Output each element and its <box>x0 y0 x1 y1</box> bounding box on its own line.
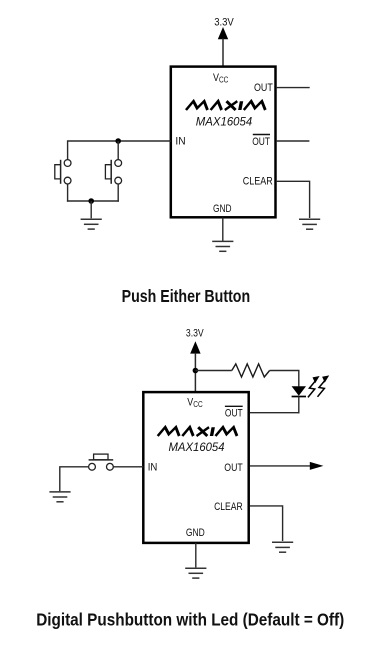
wire OUT stub (U1) <box>277 87 310 89</box>
ground (U1 GND) <box>212 241 233 251</box>
svg-text:MAX16054: MAX16054 <box>196 116 252 128</box>
svg-text:GND: GND <box>186 527 205 539</box>
node junction dot (supply to resistor) <box>193 368 199 374</box>
wire S1 bottom connection <box>67 184 69 202</box>
svg-text:IN: IN <box>148 461 158 473</box>
svg-text:OUT: OUT <box>252 136 270 148</box>
wire OUT output (U2) <box>250 465 311 467</box>
node junction dot (button ground rail) <box>88 198 94 204</box>
wire S2 bottom connection <box>117 184 119 202</box>
LED D1 emission arrow 2 <box>318 375 330 396</box>
ground (CLEAR, circuit 2) <box>272 542 293 552</box>
op-amp U2 MAX16054 body <box>143 392 248 543</box>
logo MAXIM (U2) <box>158 427 239 436</box>
wire LED to OUT-bar pin (U2) <box>250 412 300 414</box>
wire LED cathode down <box>298 397 300 414</box>
op-amp U1 MAX16054 body <box>171 67 276 218</box>
svg-text:3.3V: 3.3V <box>186 328 204 340</box>
svg-text:GND: GND <box>213 203 232 215</box>
pushbutton S3 (horizontal) <box>89 454 114 470</box>
svg-text:OUT: OUT <box>224 462 243 474</box>
svg-text:OUT: OUT <box>254 82 273 94</box>
pushbutton S1 <box>55 160 71 184</box>
wire GND pin down (U1) <box>222 218 224 241</box>
ground (buttons, circuit 1) <box>81 219 102 229</box>
LED D1 emission arrow 1 <box>308 376 320 397</box>
wire ground stem (buttons) <box>90 201 92 218</box>
ground (S3, circuit 2) <box>49 492 70 502</box>
power supply arrow +3.3V (circuit 2) <box>190 341 200 353</box>
svg-text:OUT: OUT <box>225 408 243 420</box>
node junction dot (IN net, circuit 1) <box>115 138 121 144</box>
wire VCC supply to U2 <box>194 353 196 392</box>
output arrowhead (OUT, circuit 2) <box>310 462 324 470</box>
wire VCC supply to U1 <box>222 39 224 67</box>
wire resistor left lead <box>195 370 231 372</box>
LED D1 cathode bar <box>292 396 306 398</box>
wire OUT-bar stub (U1) <box>277 140 310 142</box>
overline for OUT-bar (U2) <box>225 405 243 407</box>
svg-text:Digital Pushbutton with Led (D: Digital Pushbutton with Led (Default = O… <box>36 610 344 630</box>
svg-text:IN: IN <box>175 135 185 147</box>
wire S2 top connection <box>117 141 119 160</box>
wire GND pin down (U2) <box>195 543 197 567</box>
pushbutton S2 <box>105 160 121 184</box>
svg-text:Push Either Button: Push Either Button <box>122 286 251 306</box>
svg-text:CLEAR: CLEAR <box>243 175 273 187</box>
ground (U2 GND) <box>185 568 206 578</box>
resistor R1 <box>232 364 270 377</box>
power supply arrow +3.3V (circuit 1) <box>218 27 228 39</box>
svg-text:CLEAR: CLEAR <box>214 501 243 513</box>
wire CLEAR to ground (U2) <box>250 506 283 541</box>
wire IN net (U2) to pushbutton <box>113 466 143 468</box>
wire IN net from pushbuttons to U1 <box>68 141 171 160</box>
logo MAXIM (U1) <box>186 101 267 110</box>
wire S3 to ground <box>60 467 89 491</box>
wire bottom rail between buttons <box>67 200 119 202</box>
wire resistor to LED <box>270 371 299 387</box>
svg-text:3.3V: 3.3V <box>214 16 234 28</box>
svg-text:MAX16054: MAX16054 <box>169 442 225 454</box>
LED D1 anode triangle <box>292 386 306 395</box>
wire CLEAR to ground (U1) <box>277 181 310 218</box>
overline for OUT-bar (U1) <box>253 134 270 136</box>
ground (CLEAR, circuit 1) <box>299 219 320 229</box>
